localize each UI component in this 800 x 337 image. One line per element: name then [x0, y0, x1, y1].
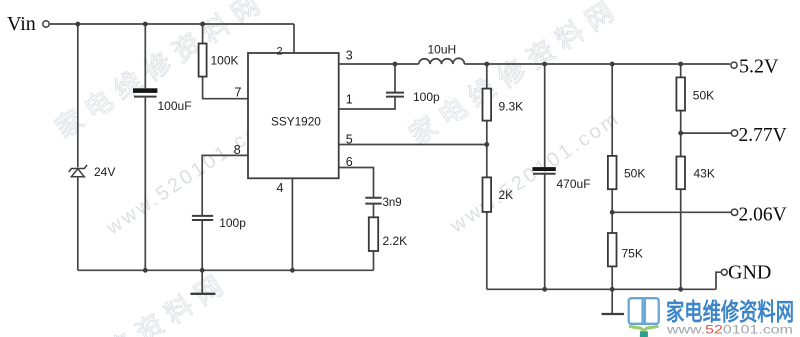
- svg-text:3: 3: [346, 49, 353, 63]
- wire: 100p to bottom rail: [201, 221, 203, 270]
- watermark www right: [446, 107, 625, 238]
- svg-text:2.2K: 2.2K: [383, 234, 408, 248]
- wire: pin6 to 3n9: [339, 168, 374, 198]
- wire: right bottom rail: [487, 288, 716, 290]
- svg-text:2K: 2K: [499, 188, 514, 202]
- svg-text:2.06V: 2.06V: [739, 204, 787, 225]
- wire: 100p2 top: [394, 64, 396, 92]
- wire: right column top: [680, 64, 682, 77]
- svg-text:2: 2: [277, 46, 283, 58]
- svg-text:SSY1920: SSY1920: [271, 115, 321, 129]
- wire: zener column upper: [77, 24, 79, 167]
- wire: 470uF column bottom: [544, 175, 546, 290]
- watermark chinese right: [404, 0, 626, 151]
- resistor 50K right: [676, 77, 714, 110]
- logo book icon: [629, 298, 659, 337]
- node left rail: [143, 268, 148, 273]
- node pin3 rail: [393, 62, 398, 67]
- svg-text:50K: 50K: [693, 89, 714, 103]
- resistor 2K: [483, 177, 514, 212]
- wire: 100p2 to pin1: [339, 97, 395, 109]
- svg-text:470uF: 470uF: [557, 177, 591, 191]
- svg-text:7: 7: [235, 86, 242, 100]
- watermark chinese bottom tail: [13, 266, 235, 337]
- terminal 2.06V: [731, 209, 737, 215]
- svg-text:4: 4: [277, 181, 284, 195]
- svg-text:3n9: 3n9: [383, 197, 402, 209]
- resistor 9.3K: [483, 89, 524, 121]
- wire: zener column lower: [77, 177, 79, 270]
- svg-text:10uH: 10uH: [428, 43, 457, 57]
- watermark www left: [102, 109, 281, 240]
- capacitor 100p at pin1: [386, 90, 440, 104]
- terminal GND: [721, 269, 727, 275]
- capacitor 3n9: [365, 197, 401, 209]
- wire: top rail Vin: [49, 23, 294, 25]
- ground right stub: [611, 289, 613, 313]
- svg-text:1: 1: [346, 93, 353, 107]
- inductor L1 10uH: [419, 58, 465, 64]
- svg-text:8: 8: [234, 143, 241, 157]
- wire: 43K down to rail: [680, 189, 682, 289]
- svg-text:9.3K: 9.3K: [499, 100, 524, 114]
- capacitor 100p at pin8: [192, 216, 246, 230]
- svg-text:5: 5: [346, 133, 353, 147]
- svg-text:43K: 43K: [694, 167, 715, 181]
- wire: 9.3K column top: [486, 64, 488, 89]
- svg-text:100p: 100p: [413, 90, 440, 104]
- resistor 43K: [676, 157, 714, 190]
- resistor 50K mid: [608, 156, 645, 189]
- wire: inductor to 5.2V: [464, 63, 730, 65]
- svg-text:5.2V: 5.2V: [739, 56, 779, 78]
- svg-text:50K: 50K: [624, 167, 645, 181]
- wire: 100K to pin7: [203, 77, 248, 99]
- wire: 3n9 to 2.2K: [373, 204, 375, 217]
- wire: 100uF column upper: [144, 24, 146, 88]
- wire: 50K mid to 2.06 node: [611, 189, 613, 233]
- capacitor 470uF electrolytic: [532, 167, 590, 191]
- resistor 75K: [608, 233, 643, 266]
- IC U1 SSY1920: [248, 53, 339, 178]
- zener diode 24V: [69, 165, 87, 177]
- wire: pin3 out: [339, 63, 419, 65]
- svg-text:6: 6: [346, 155, 353, 169]
- node right rail: [542, 287, 547, 292]
- terminal Vin: [43, 21, 49, 27]
- wire: 100uF column lower: [144, 98, 146, 271]
- node 2.77V: [678, 131, 683, 136]
- wire: 2.2K to rail: [373, 251, 375, 270]
- node top rail: [75, 22, 80, 27]
- resistor 2.2K: [369, 217, 407, 251]
- ground right: [602, 313, 625, 315]
- wire: pin5 out: [339, 144, 487, 146]
- svg-text:100uF: 100uF: [158, 99, 192, 113]
- wire: 470uF column top: [544, 64, 546, 167]
- terminal 2.77V: [731, 130, 737, 136]
- wire: mid column top: [611, 64, 613, 156]
- wire: pin4 drop: [291, 178, 293, 270]
- wire: 100K column upper: [202, 24, 204, 44]
- wire: 2.06V line: [612, 211, 731, 213]
- svg-text:2.77V: 2.77V: [739, 125, 787, 146]
- watermark chinese left: [50, 0, 272, 144]
- svg-text:www.520101.com: www.520101.com: [666, 323, 793, 337]
- node pin5: [484, 142, 489, 147]
- wire: 2K to right rail: [486, 212, 488, 289]
- resistor 100K: [199, 44, 239, 77]
- svg-text:100p: 100p: [219, 216, 246, 230]
- wire: 2.77V line: [681, 132, 732, 134]
- wire: pin8 to 100p: [202, 155, 248, 215]
- capacitor 100uF electrolytic: [133, 88, 192, 113]
- wire: drop into IC top: [293, 24, 295, 54]
- svg-text:75K: 75K: [622, 247, 643, 261]
- svg-text:GND: GND: [728, 262, 771, 284]
- wire: GND step: [716, 272, 721, 289]
- wire: 9.3K to pin5 node: [486, 121, 488, 178]
- svg-text:24V: 24V: [94, 165, 115, 179]
- ground left: [191, 293, 216, 295]
- svg-text:Vin: Vin: [7, 13, 36, 35]
- terminal 5.2V: [731, 62, 737, 68]
- svg-text:100K: 100K: [211, 54, 239, 68]
- wire: 75K to rail: [611, 266, 613, 289]
- wire: 50K right to 2.77 node: [680, 111, 682, 157]
- wire: left bottom rail: [78, 269, 374, 271]
- ground left stub: [201, 270, 203, 293]
- node 2.06V: [610, 210, 615, 215]
